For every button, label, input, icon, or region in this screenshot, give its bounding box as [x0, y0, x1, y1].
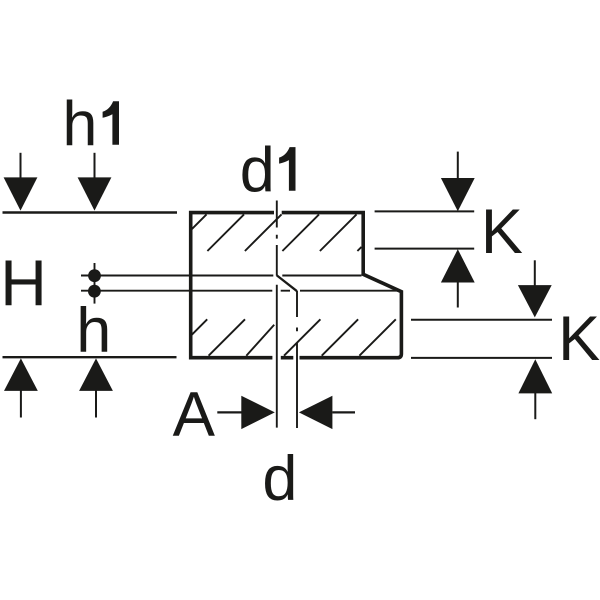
dimension line h1	[3, 211, 178, 213]
centerline jog	[277, 275, 297, 291]
lower K dimension lines	[411, 320, 552, 358]
upper K up arrow	[457, 282, 459, 308]
body outline right with chamfer	[282, 213, 402, 358]
svg-text:K: K	[558, 304, 600, 374]
reference dots vertical tick	[94, 263, 96, 304]
A dimension line right	[332, 411, 355, 413]
body outline bottom middle dash	[281, 356, 294, 360]
arrow up h left	[20, 389, 22, 418]
svg-text:d: d	[262, 444, 297, 514]
arrow down h1 left	[20, 153, 22, 179]
dimension line h	[3, 356, 177, 358]
upper K down arrow	[457, 152, 459, 179]
A right arrow	[241, 396, 274, 429]
arrow up h right	[95, 389, 97, 418]
svg-text:d: d	[240, 136, 275, 206]
svg-text:h: h	[76, 296, 111, 366]
arrow down h1 right	[94, 153, 96, 179]
reference line H lower	[81, 290, 399, 292]
upper K dimension lines	[375, 211, 475, 248]
A dimension line left	[217, 411, 243, 413]
extension line A	[276, 285, 278, 428]
svg-text:h: h	[62, 89, 97, 159]
hatching upper band	[192, 214, 362, 251]
lower K down arrow	[534, 260, 536, 286]
svg-text:A: A	[173, 379, 216, 449]
reference dot upper	[88, 269, 101, 282]
svg-text:H: H	[0, 247, 47, 319]
A left arrow	[299, 396, 333, 429]
body outline left and bottom	[191, 213, 274, 358]
centerline d	[296, 291, 298, 428]
lower K up arrow	[534, 392, 536, 419]
reference line H upper	[81, 275, 362, 277]
hatching lower band	[192, 319, 396, 355]
reference dot lower	[88, 285, 101, 298]
centerline d1	[276, 201, 278, 276]
svg-text:K: K	[481, 197, 523, 267]
